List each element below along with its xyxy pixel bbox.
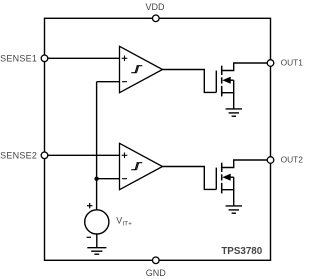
U1 - input symbol [122,81,127,83]
U2 - input symbol [122,178,127,180]
transistor Q2 body arrow [222,174,233,181]
wire source bottom to ground [96,234,98,248]
wire Q2 body-source vertical [233,177,235,206]
source + polarity mark [87,203,92,208]
svg-text:GND: GND [146,268,167,278]
U1 hysteresis symbol [131,66,142,73]
U2 + input symbol [122,153,128,159]
transistor Q1 body arrow [222,77,233,84]
wire Q2 source [222,189,234,191]
transistor Q2 channel [221,163,223,194]
transistor Q1 gate bar [215,71,217,93]
voltage reference source VIT+ [85,210,109,234]
wire Q1 drain to OUT1 [222,63,271,71]
terminal VDD [153,15,160,22]
transistor Q2 gate bar [215,168,217,190]
ground under Q2 [226,206,242,213]
wire reference net to U2 - input [97,178,120,180]
wire U1 output to Q1 gate [163,70,217,93]
wire Q1 source [222,92,234,94]
wire SENSE2 to comparator U2 + input [45,154,120,156]
wire reference net vertical [96,82,98,211]
comparator U2 [120,143,163,189]
terminal OUT1 [267,60,274,67]
ground under Q1 [226,109,242,116]
terminal SENSE2 [41,152,48,159]
junction reference node [94,177,98,181]
U2 hysteresis symbol [131,163,142,170]
transistor Q1 channel [221,66,223,97]
terminal OUT2 [267,157,274,164]
wire Q2 drain to OUT2 [222,160,271,168]
terminal SENSE1 [41,55,48,62]
svg-text:SENSE2: SENSE2 [0,150,37,160]
wire U2 output to Q2 gate [163,167,217,190]
svg-text:VDD: VDD [145,2,165,12]
chip boundary box [45,18,271,260]
svg-text:VIT+: VIT+ [116,215,132,227]
ground under reference source [87,248,106,255]
svg-text:OUT2: OUT2 [281,154,304,164]
comparator U1 [120,46,163,92]
U1 + input symbol [122,56,128,62]
wire SENSE1 to comparator U1 + input [45,57,120,59]
terminal GND [153,257,160,264]
svg-text:OUT1: OUT1 [281,57,304,67]
wire reference net to U1 - input [97,81,120,83]
svg-text:TPS3780: TPS3780 [221,246,262,257]
source - polarity mark [87,236,91,238]
svg-text:SENSE1: SENSE1 [0,53,37,63]
wire Q1 body-source vertical [233,80,235,109]
